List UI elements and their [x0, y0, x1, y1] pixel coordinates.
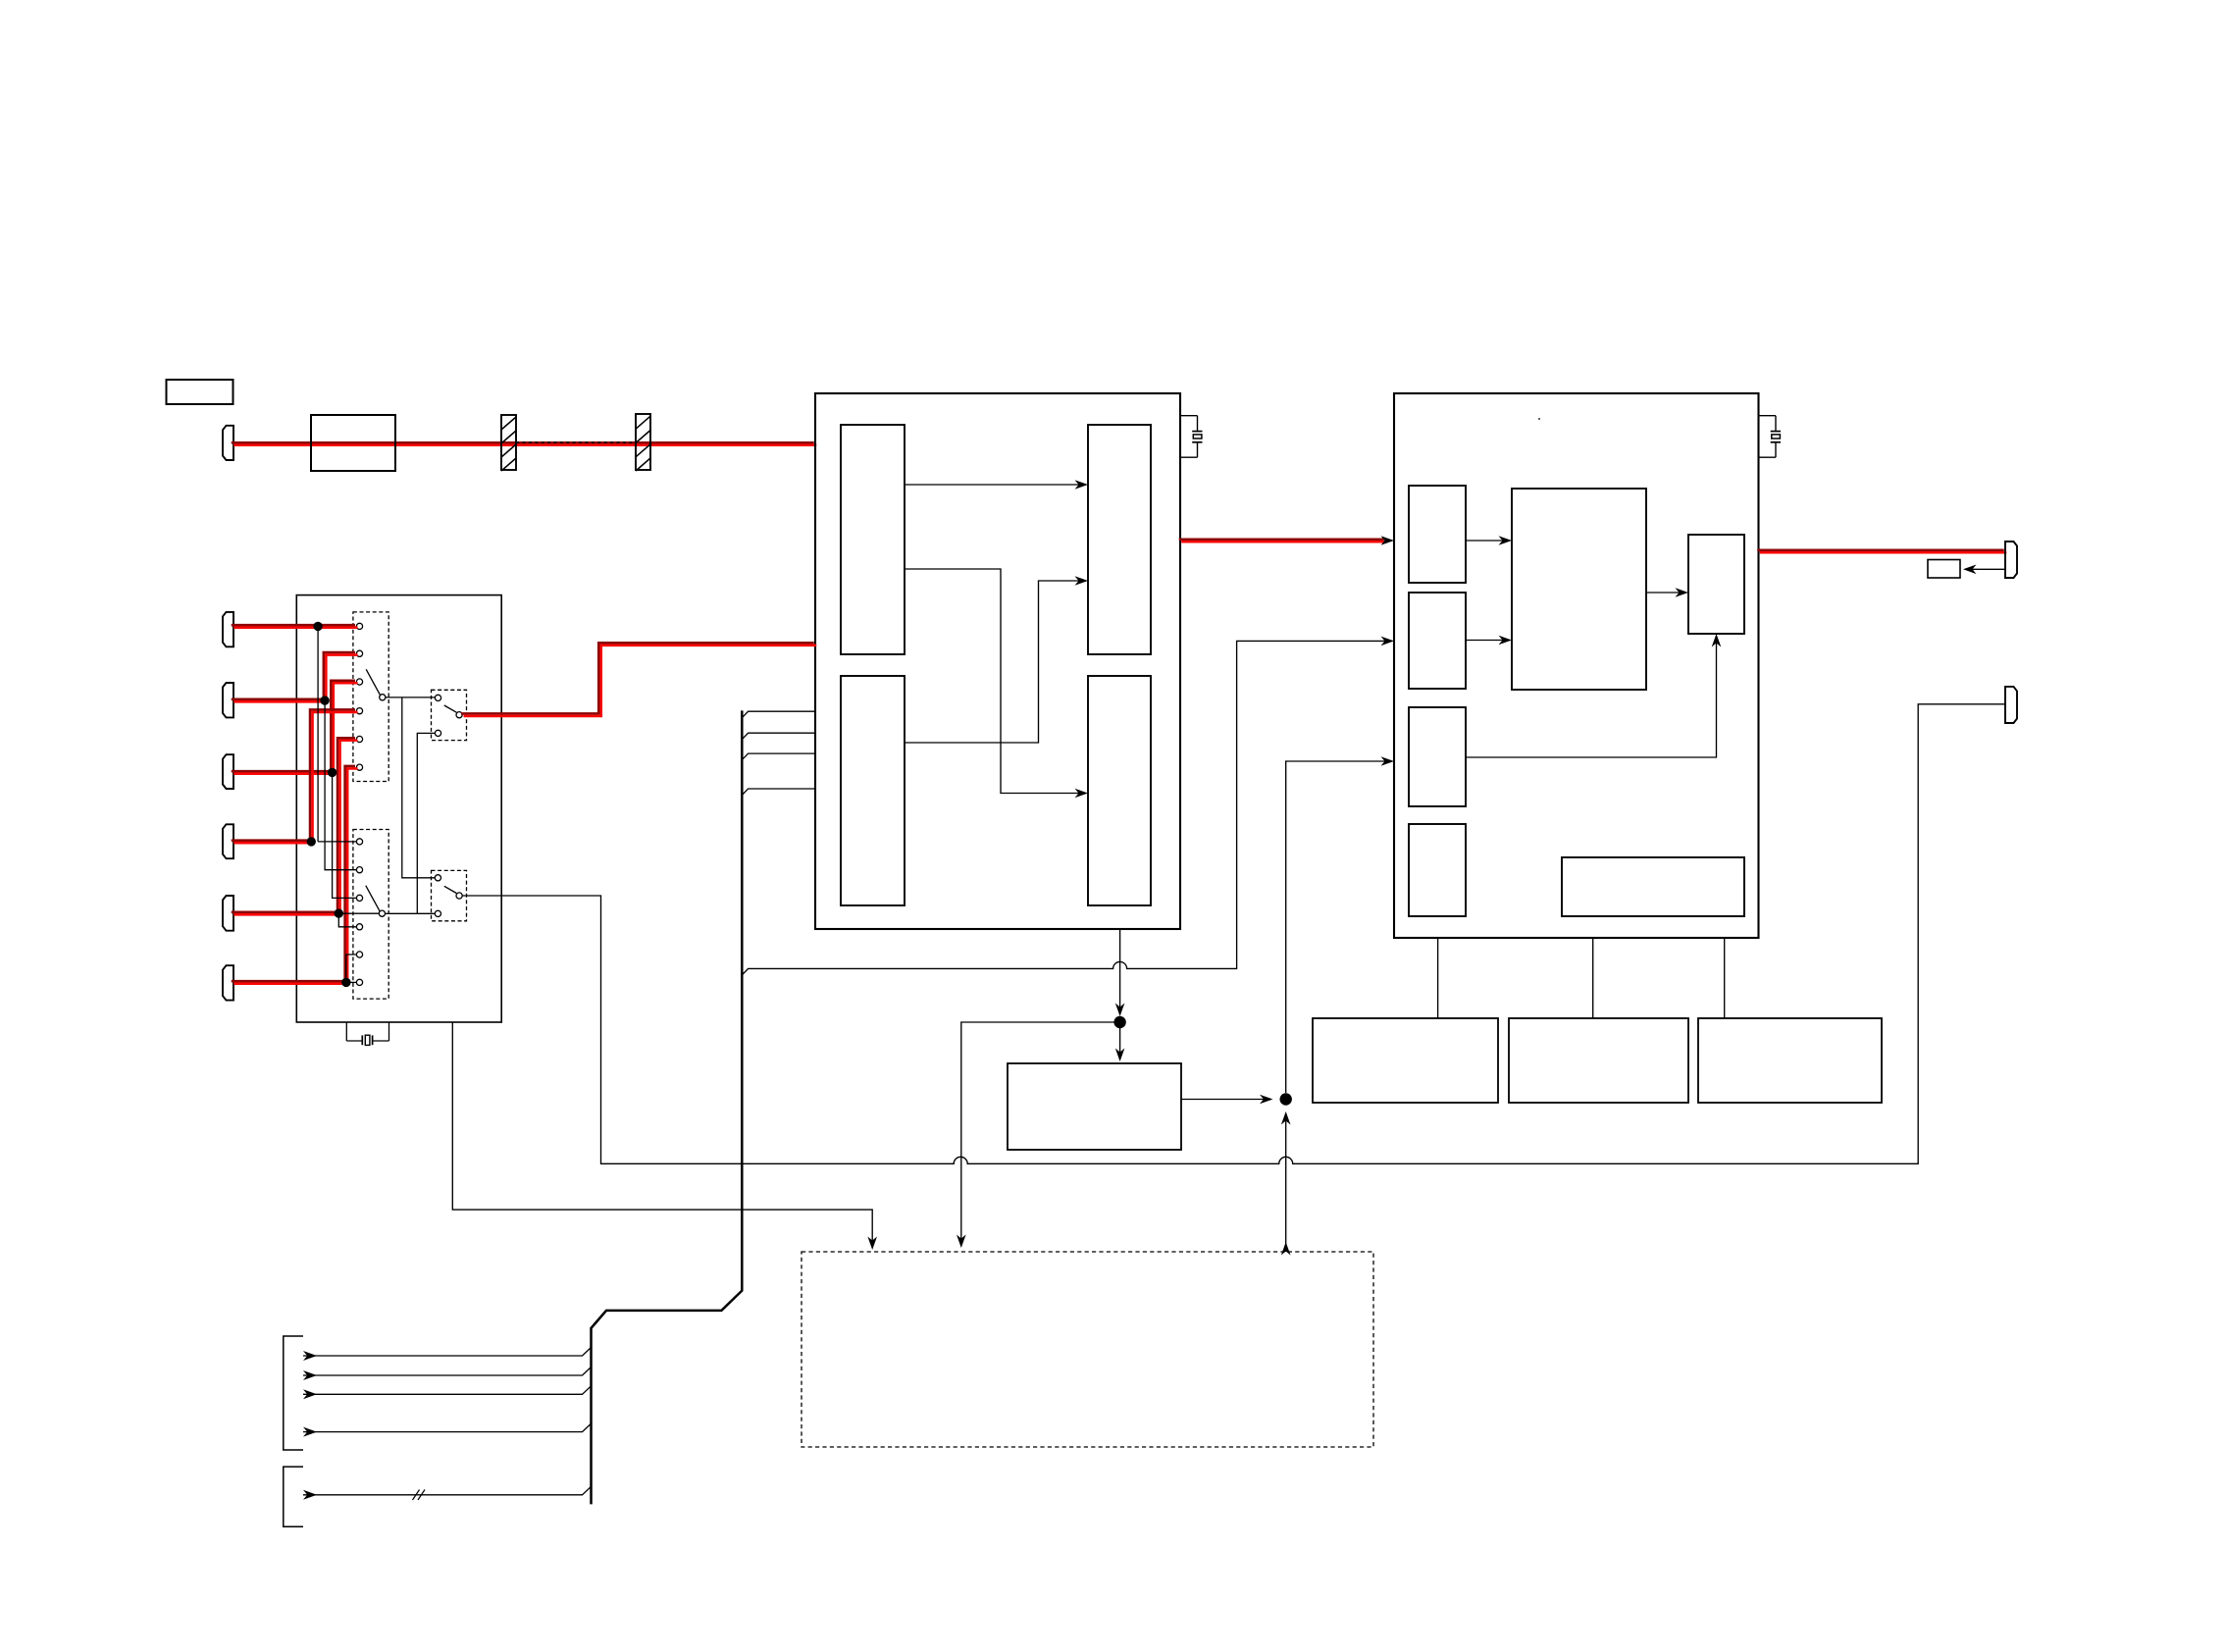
memory box 3: [1698, 1018, 1882, 1103]
battery connector CN4: [223, 824, 233, 858]
power wire U1 to U2: [1179, 540, 1387, 542]
memory box 1: [1313, 1018, 1498, 1103]
bus tap 4 into U1: [742, 789, 815, 796]
sense box near right connector: [1928, 560, 1960, 579]
wire node2 up into U2: [1286, 761, 1386, 1093]
S2 contacts and arm: [435, 875, 440, 881]
wire CN3 node down to relay2 contact 3: [333, 772, 357, 898]
wire node1 into mode box: [1119, 1028, 1121, 1056]
U2 sub-block C (input 3): [1409, 707, 1466, 806]
relay contact group 1 (dashed): [353, 612, 388, 782]
battery connector CN6: [223, 965, 233, 1000]
label box (empty) top-left: [167, 380, 233, 404]
bus tap 1 into U1: [742, 711, 815, 718]
wire CN5 node to relay2 common: [338, 912, 379, 914]
IC block U1 (system control) outline: [815, 393, 1180, 929]
power wire CN6 to relay1 contact 6: [232, 766, 358, 984]
input line 5 with arrow and cable marker: [303, 1490, 317, 1500]
switch S2 (dashed box): [432, 870, 467, 920]
wire U2 B to main box: [1466, 640, 1504, 642]
bus tap 2 into U1: [742, 733, 815, 740]
battery connector CN5: [223, 896, 233, 931]
U1 sub-block: logic (bottom-left): [841, 676, 905, 905]
relay 2 common contact and arm: [379, 910, 385, 916]
filter box (noise filter): [311, 415, 395, 471]
power switch block outline: [296, 595, 501, 1022]
signal wire S2 common to CN691 (long route): [462, 704, 2005, 1164]
connector CN690 (right, power out): [2005, 542, 2017, 578]
battery connector CN2: [223, 683, 233, 717]
U2 main processor box: [1512, 489, 1646, 690]
relay 2 fixed contacts: [356, 839, 362, 845]
dashed-black overlay between pass-through connectors: [516, 441, 636, 443]
wire remote box up to node 2 (up arrows): [1285, 1117, 1287, 1252]
junction node 1: [1113, 1016, 1125, 1028]
relay 1 common contact and arm: [380, 695, 386, 700]
switch S1 (dashed box): [432, 690, 467, 740]
wire branch down to S2 top contact: [402, 697, 435, 878]
bus tap 3 into U1: [742, 753, 815, 760]
power wire CN1 to relay1 contact 1: [232, 625, 358, 628]
power wire: connector to filter box: [232, 442, 817, 445]
U1 sub-block: output driver (bottom-right): [1088, 676, 1151, 905]
bus tap 5 to U2 (with hop over U1 drop): [742, 641, 1385, 975]
wire CN2 node down to relay2 contact 2: [325, 700, 356, 870]
connector CN601 (left, power input): [223, 426, 233, 460]
pass-through connector (hatched) 1: [501, 415, 516, 470]
wire mode box to junction node 2: [1181, 1099, 1268, 1101]
wire U2 to memory box 1: [1437, 938, 1439, 1018]
U2 sub-block D (bottom-left): [1409, 824, 1466, 916]
crystal X1 on U1 right edge: [1180, 415, 1198, 417]
wire U1 TL to BR (stepped): [905, 569, 1080, 794]
S1 contacts and arm: [435, 695, 440, 700]
input bracket 1 (4 lines): [284, 1336, 303, 1450]
power wire U2 to output connector: [1757, 550, 2006, 553]
pass-through connector (hatched) 2: [636, 414, 650, 470]
wire relay2 common to S2 bottom contact: [386, 912, 436, 914]
mode control box: [1008, 1063, 1181, 1150]
wire CN1 node down to relay2 contact 1: [318, 626, 356, 842]
input line 2 with arrow: [303, 1370, 317, 1380]
wire switch block bottom to remote box (down arrow): [452, 1022, 872, 1244]
wire U2 to memory box 3: [1724, 938, 1726, 1018]
wire CN5 node down to relay2 contact 4: [338, 913, 356, 927]
wire relay1 common to S1 top contact: [386, 697, 435, 698]
arrow wire from connector to sense box: [1969, 568, 2005, 570]
U1 sub-block: regulator (top-left): [841, 425, 905, 654]
junction dots on power wires: [313, 622, 322, 631]
harness bus trunk (thick): [592, 710, 743, 1504]
stray mark in U2: [1538, 418, 1540, 420]
power wire CN2 to relay1 contact 2: [232, 652, 358, 701]
wire U1 bottom to junction node 1: [1119, 929, 1121, 1011]
ceramic resonator at switch block bottom: [345, 1022, 347, 1041]
wire U2 A to main box: [1466, 540, 1504, 542]
wire U1 BL to TR (stepped): [905, 581, 1080, 743]
wire U1 TL to TR: [905, 484, 1080, 486]
U2 output box (right): [1688, 535, 1744, 634]
relay 1 fixed contacts: [356, 623, 362, 629]
U2 sub-block B (input 2): [1409, 593, 1466, 689]
U2 wide box (bottom): [1562, 857, 1744, 916]
power wire CN5 to relay1 contact 5: [232, 738, 358, 914]
input line 4 with arrow: [303, 1427, 317, 1437]
wire S1 bottom contact down to S2 bottom net: [417, 733, 435, 913]
relay contact group 2 (dashed): [353, 830, 388, 1000]
memory box 2: [1509, 1018, 1688, 1103]
U1 sub-block: output driver (top-right): [1088, 425, 1151, 654]
power wire CN4 to relay1 contact 4: [232, 709, 358, 843]
wire CN6 node up to relay2 contact 5: [346, 955, 356, 982]
power wire CN3 to relay1 contact 3: [232, 681, 358, 774]
wire U2 main box to output box: [1646, 592, 1681, 594]
input bracket 2 (1 line): [284, 1467, 303, 1526]
wire node1 left/down to remote box: [961, 1022, 1114, 1242]
wire U2 C to output box (up): [1466, 642, 1717, 757]
wire CN6 node to relay2 contact 6: [346, 981, 356, 983]
cable-count slashes on line 5: [413, 1490, 420, 1501]
remote receiver dashed box: [802, 1252, 1373, 1447]
battery connector CN1: [223, 612, 233, 646]
U2 sub-block A (top-left input): [1409, 486, 1466, 583]
power wire S1 common to U1 (stepped up): [461, 643, 816, 716]
input line 3 with arrow: [303, 1389, 317, 1399]
connector CN691 (right lower): [2005, 687, 2017, 723]
IC block U2 (camera process) outline: [1394, 393, 1759, 938]
battery connector CN3: [223, 754, 233, 789]
junction node 2: [1280, 1093, 1292, 1105]
wire U2 to memory box 2: [1592, 938, 1594, 1018]
crystal X2 on U2 right edge: [1759, 415, 1777, 417]
input line 1 with arrow: [303, 1351, 317, 1361]
